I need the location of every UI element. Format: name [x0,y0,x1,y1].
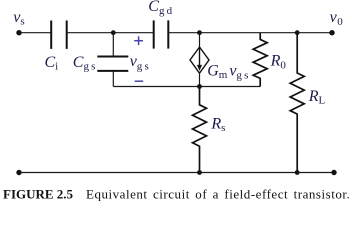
svg-text:Gmvg s: Gmvg s [207,62,248,81]
wire node B to R0 top [200,32,261,34]
minus sign of vgs [135,80,144,82]
wire bottom rail middle segment [200,172,298,174]
capacitor Ci [51,21,66,49]
bottom rail right terminal dot [331,170,336,175]
wire node A down to Cgs [112,33,114,57]
capacitor Cgd [154,20,169,48]
bottom rail RL junction dot [295,170,300,175]
svg-text:Ci: Ci [45,54,59,73]
wire RL junction to v0 [297,32,332,34]
wire Cgs down to middle node wire [112,71,114,87]
RL top junction dot [295,30,300,35]
svg-text:RL: RL [308,88,326,106]
svg-text:vs: vs [13,9,24,28]
node vs terminal dot [16,30,21,35]
wire node B down to current source [199,33,201,47]
resistor RL [290,33,304,173]
middle node junction dot [197,84,202,89]
svg-text:FIGURE 2.5Equivalent circuit o: FIGURE 2.5Equivalent circuit of a field-… [3,187,350,202]
wire bottom rail left segment [19,172,200,174]
svg-text:Cg d: Cg d [148,0,172,17]
node A junction dot [111,30,116,35]
wire bottom rail right segment [297,172,334,174]
node v0 terminal dot [329,30,334,35]
wire Ci to node A [67,32,114,34]
resistor Rs [193,87,207,173]
wire R0 top to RL junction [260,32,297,34]
wire middle node right segment to R0 [200,86,261,88]
wire Cgd to node B [168,32,199,34]
svg-text:R0: R0 [270,53,287,72]
wire node A to Cgd [113,32,153,34]
plus sign of vgs [134,36,143,45]
svg-text:vg s: vg s [130,53,149,72]
bottom rail Rs junction dot [197,170,202,175]
resistor R0 [253,33,267,87]
bottom rail left terminal dot [16,170,21,175]
wire vs to Ci [19,32,51,34]
controlled current source Gm vgs (diamond with down arrow) [190,47,209,73]
wire middle node left segment [113,86,199,88]
svg-text:v0: v0 [330,9,344,28]
capacitor Cgs [97,57,128,71]
svg-text:Rs: Rs [210,116,225,134]
wire current source to middle node [199,73,201,86]
node B junction dot [197,30,202,35]
svg-text:Cg s: Cg s [73,54,96,73]
